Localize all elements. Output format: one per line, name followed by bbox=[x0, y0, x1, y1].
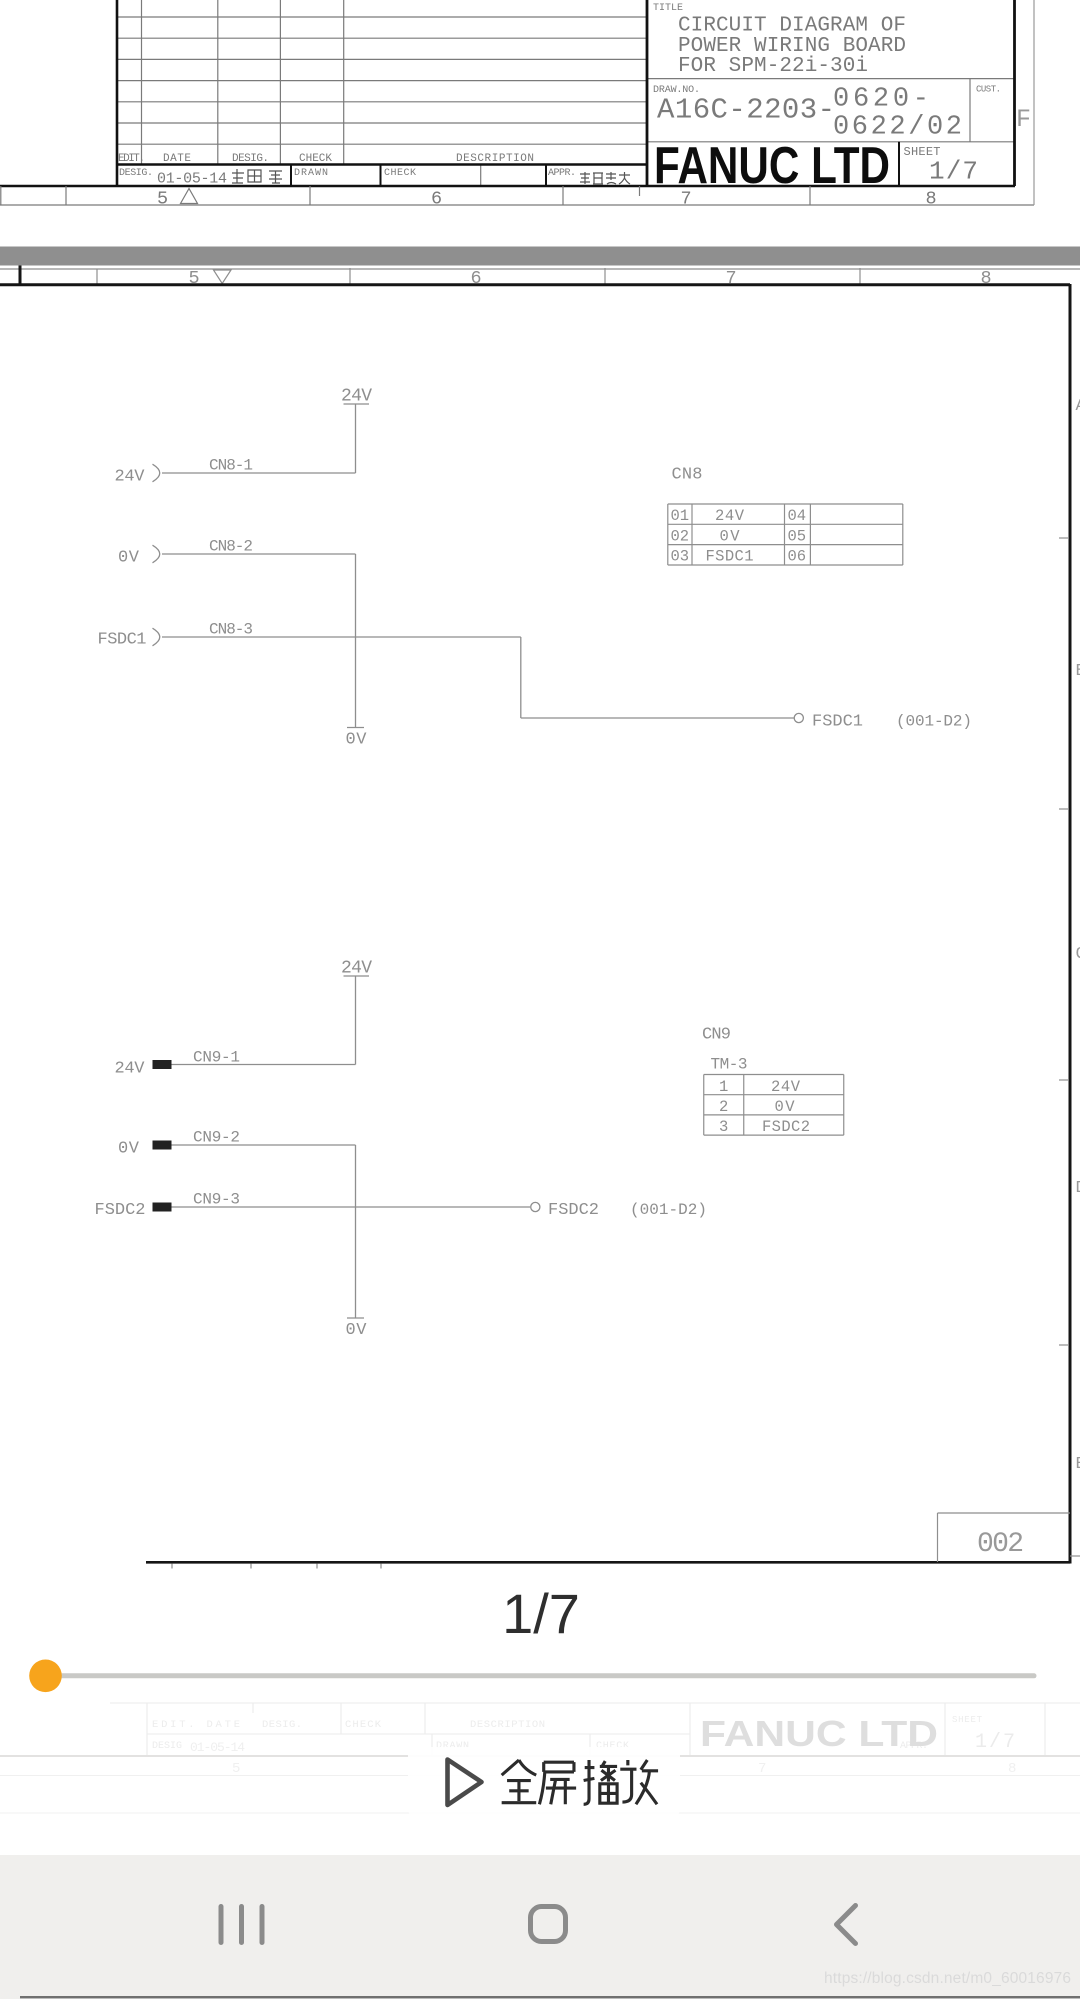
svg-text:B: B bbox=[1076, 662, 1080, 681]
svg-text:8: 8 bbox=[1008, 1761, 1016, 1777]
svg-text:0V: 0V bbox=[118, 549, 140, 568]
svg-text:TM-3: TM-3 bbox=[711, 1056, 748, 1074]
svg-text:DESIG: DESIG bbox=[152, 1741, 182, 1752]
svg-text:002: 002 bbox=[977, 1529, 1024, 1560]
svg-text:04: 04 bbox=[788, 507, 807, 525]
svg-text:A16C-2203-: A16C-2203- bbox=[657, 94, 835, 127]
svg-text:0V: 0V bbox=[118, 1140, 140, 1159]
svg-text:FSDC2: FSDC2 bbox=[762, 1118, 810, 1136]
svg-text:D: D bbox=[1076, 1179, 1080, 1198]
svg-text:1/7: 1/7 bbox=[502, 1582, 580, 1645]
svg-text:CN9-2: CN9-2 bbox=[193, 1129, 240, 1147]
svg-text:FSDC2: FSDC2 bbox=[95, 1201, 146, 1220]
svg-text:DESCRIPTION: DESCRIPTION bbox=[456, 153, 534, 165]
svg-text:01: 01 bbox=[671, 507, 690, 525]
svg-text:FSDC1: FSDC1 bbox=[98, 631, 147, 650]
svg-text:1/7: 1/7 bbox=[975, 1731, 1015, 1754]
svg-text:1/7: 1/7 bbox=[929, 157, 978, 187]
svg-text:DESIG.: DESIG. bbox=[232, 153, 269, 165]
svg-text:1: 1 bbox=[719, 1078, 728, 1096]
svg-text:CN9-3: CN9-3 bbox=[193, 1191, 240, 1209]
svg-text:CUST.: CUST. bbox=[976, 85, 1001, 95]
svg-text:(001-D2): (001-D2) bbox=[896, 713, 972, 731]
svg-text:24V: 24V bbox=[341, 387, 372, 407]
svg-text:FOR SPM-22i-30i: FOR SPM-22i-30i bbox=[678, 55, 868, 78]
svg-text:0V: 0V bbox=[720, 527, 741, 545]
svg-text:CN8-1: CN8-1 bbox=[209, 457, 253, 475]
svg-text:https://blog.csdn.net/m0_60016: https://blog.csdn.net/m0_60016976 bbox=[824, 1970, 1071, 1987]
svg-text:01-05-14: 01-05-14 bbox=[157, 171, 227, 188]
svg-text:APPR.: APPR. bbox=[548, 168, 576, 179]
svg-text:7: 7 bbox=[681, 189, 692, 210]
svg-text:CHECK: CHECK bbox=[384, 168, 416, 179]
svg-text:FANUC LTD: FANUC LTD bbox=[654, 137, 890, 195]
svg-text:E: E bbox=[1076, 1455, 1080, 1474]
svg-text:CN8: CN8 bbox=[672, 466, 703, 485]
svg-text:3: 3 bbox=[719, 1118, 728, 1136]
svg-text:06: 06 bbox=[788, 548, 807, 566]
svg-text:DESCRIPTION: DESCRIPTION bbox=[470, 1719, 545, 1731]
svg-text:5: 5 bbox=[157, 189, 168, 210]
svg-text:EDIT.: EDIT. bbox=[118, 153, 145, 165]
svg-text:8: 8 bbox=[926, 189, 937, 210]
svg-text:05: 05 bbox=[788, 527, 807, 545]
svg-text:0V: 0V bbox=[346, 731, 368, 750]
svg-text:CN9-1: CN9-1 bbox=[193, 1049, 240, 1067]
svg-text:24V: 24V bbox=[341, 959, 372, 979]
svg-text:EDIT. DATE: EDIT. DATE bbox=[152, 1719, 240, 1731]
svg-text:SHEET: SHEET bbox=[952, 1715, 983, 1725]
svg-text:CHECK: CHECK bbox=[299, 153, 332, 165]
svg-text:6: 6 bbox=[471, 268, 482, 289]
svg-text:0620-: 0620- bbox=[833, 85, 929, 115]
svg-text:DESIG.: DESIG. bbox=[262, 1719, 302, 1731]
svg-text:CN8-3: CN8-3 bbox=[209, 621, 253, 639]
svg-text:5: 5 bbox=[189, 268, 200, 289]
svg-text:24V: 24V bbox=[771, 1078, 801, 1096]
svg-text:DESIG.: DESIG. bbox=[119, 168, 153, 179]
svg-text:7: 7 bbox=[758, 1761, 766, 1777]
svg-text:0V: 0V bbox=[346, 1321, 368, 1340]
svg-text:7: 7 bbox=[726, 268, 737, 289]
svg-text:0V: 0V bbox=[775, 1098, 796, 1116]
svg-text:24V: 24V bbox=[715, 507, 745, 525]
svg-text:CN8-2: CN8-2 bbox=[209, 538, 253, 556]
svg-text:A: A bbox=[1076, 397, 1080, 416]
svg-text:02: 02 bbox=[671, 527, 690, 545]
svg-text:C: C bbox=[1076, 945, 1080, 964]
svg-text:FSDC1: FSDC1 bbox=[812, 713, 863, 732]
svg-text:CN9: CN9 bbox=[702, 1026, 731, 1045]
svg-text:24V: 24V bbox=[115, 1060, 146, 1079]
svg-text:FANUC LTD: FANUC LTD bbox=[700, 1713, 938, 1754]
svg-text:2: 2 bbox=[719, 1098, 728, 1116]
svg-text:DRAWN: DRAWN bbox=[294, 168, 328, 179]
svg-text:(001-D2): (001-D2) bbox=[630, 1201, 707, 1219]
svg-text:FSDC2: FSDC2 bbox=[548, 1201, 599, 1220]
svg-text:6: 6 bbox=[431, 189, 442, 210]
svg-text:CHECK: CHECK bbox=[345, 1719, 382, 1731]
svg-text:DATE: DATE bbox=[163, 153, 191, 165]
svg-text:F: F bbox=[1016, 105, 1031, 134]
svg-text:FSDC1: FSDC1 bbox=[706, 548, 754, 566]
svg-text:24V: 24V bbox=[115, 468, 146, 487]
svg-text:03: 03 bbox=[671, 548, 690, 566]
svg-text:TITLE: TITLE bbox=[653, 3, 683, 14]
svg-text:8: 8 bbox=[981, 268, 992, 289]
svg-text:01-05-14: 01-05-14 bbox=[190, 1740, 245, 1755]
svg-text:5: 5 bbox=[232, 1761, 240, 1777]
